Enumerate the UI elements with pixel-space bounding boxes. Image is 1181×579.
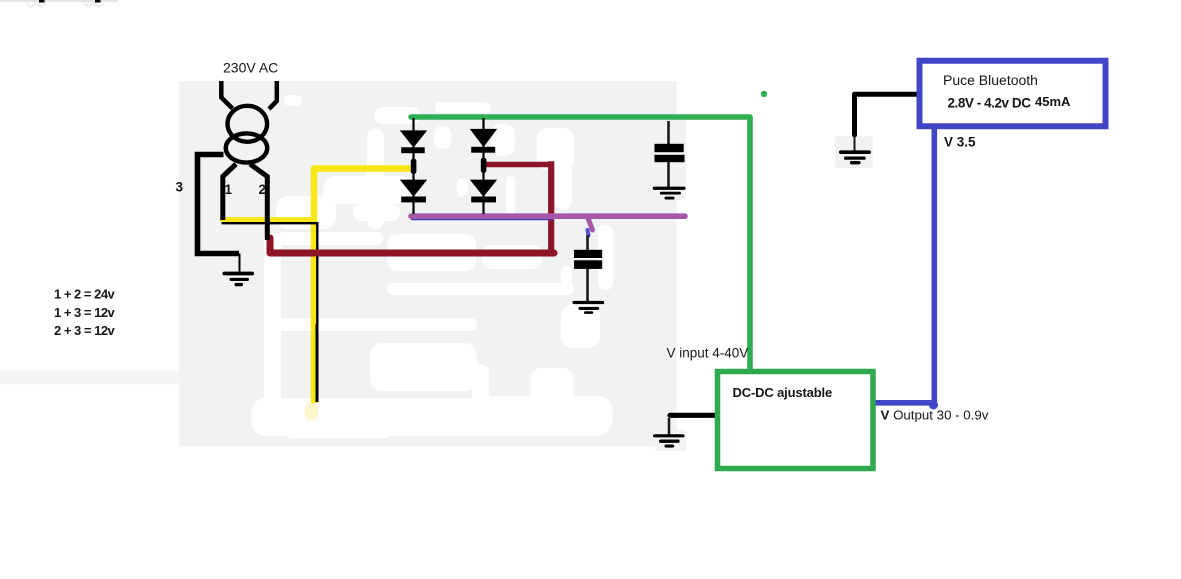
wire blue output of Puce box to DC-DC output <box>875 129 934 403</box>
box U2 DC-DC ajustable <box>718 372 874 469</box>
T1 lead pin 3 to ground <box>198 155 240 254</box>
wire yellow from pin 1 <box>223 217 315 222</box>
svg-text:1: 1 <box>225 182 233 197</box>
capacitor C2 lead <box>586 235 589 250</box>
capacitor C2 <box>574 250 602 269</box>
diode D1 <box>400 130 427 153</box>
T1 top lead left <box>221 81 232 109</box>
box U1 Puce Bluetooth <box>920 61 1106 127</box>
T1 secondary circle <box>226 133 267 162</box>
wire dark red right vertical <box>548 161 554 253</box>
diode D2 <box>400 180 427 203</box>
ground stem of Puce box <box>854 135 856 151</box>
svg-text:Puce Bluetooth: Puce Bluetooth <box>943 72 1038 88</box>
capacitor C2 lower lead <box>586 269 589 301</box>
capacitor C1 lower lead <box>667 162 670 187</box>
wire thin dark blue under purple <box>411 218 553 220</box>
node wire diode column 1 <box>412 118 414 214</box>
capacitor C1 <box>655 144 685 162</box>
ground stem under transformer <box>239 254 241 272</box>
top edge cropped text remnants <box>0 0 118 7</box>
ground symbol under C2 <box>573 301 605 314</box>
capacitor C1 lead <box>667 121 670 144</box>
svg-text:230V AC: 230V AC <box>223 59 278 75</box>
wire green positive rail to DC-DC input <box>411 117 750 369</box>
wire black ground lead of DC-DC box <box>670 413 716 418</box>
ground symbol under C1 <box>653 187 686 200</box>
white erasure blobs <box>251 95 613 438</box>
T1 bottom lead pin 2 <box>250 164 267 240</box>
diode D3 <box>470 129 497 153</box>
wire yellow vertical and top run to diode column 1 <box>314 169 414 404</box>
svg-text:V Output 30 - 0.9v: V Output 30 - 0.9v <box>881 407 989 422</box>
T1 bottom lead pin 1 <box>223 164 236 220</box>
ground symbol of Puce box <box>839 150 871 164</box>
svg-text:V input 4-40V: V input 4-40V <box>667 345 749 360</box>
wire purple stub to capacitor C2 <box>588 218 593 230</box>
transformer T1 <box>198 81 277 254</box>
diode D4 <box>470 180 497 203</box>
svg-text:3: 3 <box>176 179 184 194</box>
svg-text:1 + 3 = 12v: 1 + 3 = 12v <box>54 305 116 320</box>
wire thin black overdraw lower <box>316 324 319 402</box>
background erased gray region <box>0 81 873 451</box>
ground symbol of DC-DC box <box>653 434 685 447</box>
ground symbol under transformer <box>223 272 255 287</box>
svg-text:2 + 3 = 12v: 2 + 3 = 12v <box>54 323 116 338</box>
wire dark red upper run from diode column 2 <box>483 162 551 168</box>
svg-text:45mA: 45mA <box>1035 94 1071 109</box>
T1 primary circle <box>228 106 268 142</box>
svg-text:DC-DC ajustable: DC-DC ajustable <box>733 385 833 400</box>
node junction blob column 2 <box>481 158 487 174</box>
svg-text:1 + 2 = 24v: 1 + 2 = 24v <box>54 287 116 302</box>
node wire diode column 2 <box>482 118 484 214</box>
wire dark red lower run to transformer pin 2 <box>270 238 554 253</box>
ground stem of DC-DC box <box>668 418 671 435</box>
wire purple rectifier negative rail <box>411 213 685 219</box>
green dot <box>761 91 767 97</box>
svg-text:V 3.5: V 3.5 <box>944 135 976 150</box>
wire thin black overdraw on yellow <box>222 223 318 324</box>
T1 top lead right <box>269 81 277 109</box>
pale yellow smear below yellow wire end <box>305 403 318 420</box>
svg-text:2: 2 <box>259 182 267 197</box>
svg-text:2.8V - 4.2v DC: 2.8V - 4.2v DC <box>948 96 1032 111</box>
wire black ground lead of Puce box <box>855 94 919 135</box>
wire blue tip of stub <box>588 230 589 236</box>
blue corner blob <box>929 401 938 410</box>
node junction blob column 1 <box>411 159 417 175</box>
